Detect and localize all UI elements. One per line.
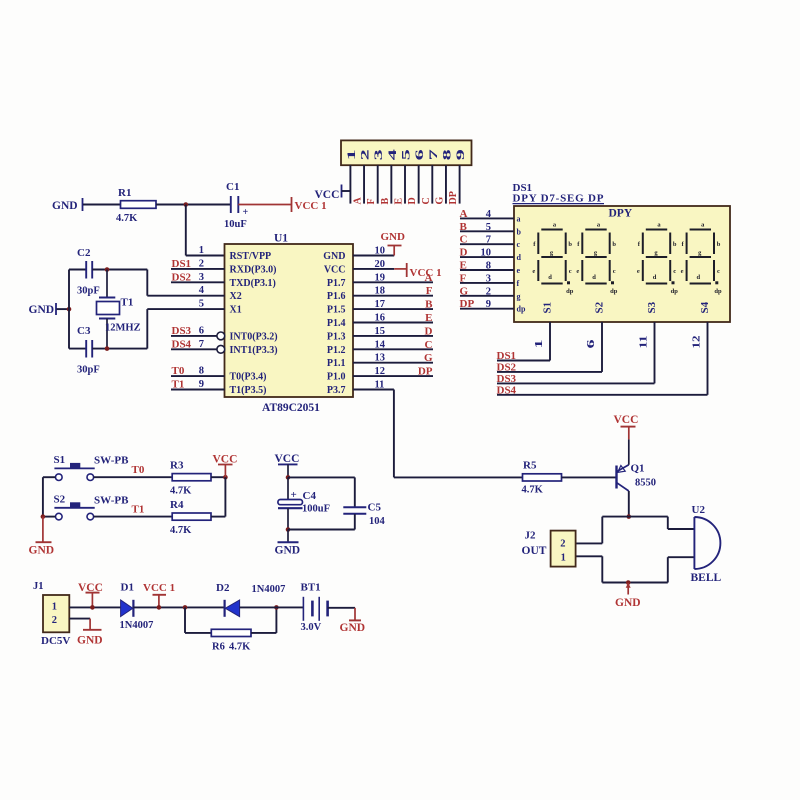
svg-text:D: D — [460, 247, 468, 259]
svg-text:P1.7: P1.7 — [327, 278, 346, 289]
connector J2 body — [551, 531, 576, 567]
node crystal top junction — [105, 267, 110, 272]
wire VCC to connector pin 1 — [342, 190, 351, 192]
svg-text:DP: DP — [418, 366, 433, 378]
node R3/VCC junction — [223, 475, 228, 480]
svg-text:T0: T0 — [172, 365, 185, 377]
wire S2 to R4 (net T1) — [94, 516, 173, 518]
svg-text:C5: C5 — [368, 502, 382, 514]
wire J1 pin1 to D1 — [69, 606, 120, 608]
wire top C2 segment — [69, 269, 86, 271]
svg-text:S2: S2 — [594, 301, 606, 313]
wire bypass rail left — [185, 632, 211, 634]
wire speaker loop left upper — [601, 517, 603, 544]
resistor R1 — [116, 187, 156, 224]
svg-text:RXD(P3.0): RXD(P3.0) — [230, 264, 277, 275]
power port VCC1 (top) — [292, 197, 327, 212]
wire bypass left down — [184, 607, 186, 633]
wire X1 rail segment — [146, 309, 148, 349]
svg-text:S1: S1 — [54, 454, 66, 466]
node speaker top junction — [627, 514, 632, 519]
capacitor C1 — [224, 181, 249, 230]
svg-text:DS3: DS3 — [172, 325, 192, 337]
svg-text:B: B — [425, 299, 433, 311]
svg-text:DS4: DS4 — [172, 338, 192, 350]
wire Q1 collector down — [628, 491, 630, 517]
svg-text:2: 2 — [360, 149, 372, 160]
svg-text:Q1: Q1 — [631, 463, 645, 475]
wire net DS3 to U1 pin 6 — [171, 335, 217, 337]
connector pin 9 lead wire — [459, 165, 461, 203]
wire speaker loop bottom — [602, 582, 668, 584]
svg-text:d: d — [517, 253, 522, 262]
svg-text:G: G — [434, 197, 445, 205]
wire display segment net D — [460, 256, 514, 258]
svg-text:DPY D7-SEG DP: DPY D7-SEG DP — [513, 193, 604, 205]
svg-text:INT0(P3.2): INT0(P3.2) — [230, 331, 278, 342]
wire speaker loop left lower — [601, 556, 603, 582]
svg-text:4.7K: 4.7K — [170, 486, 192, 497]
wire net T0 to U1 pin 8 — [171, 375, 225, 377]
connector pin 6 lead wire — [418, 165, 420, 203]
wire C3 to X1 node — [92, 348, 147, 350]
svg-text:X2: X2 — [230, 291, 242, 302]
svg-text:dp: dp — [671, 288, 679, 295]
svg-text:e: e — [532, 268, 535, 275]
diode D2 (1N4007, reversed) — [216, 582, 285, 617]
wire C5 branch down — [354, 477, 356, 507]
svg-text:9: 9 — [486, 299, 491, 310]
wire display segment net F — [460, 282, 514, 284]
svg-text:P3.7: P3.7 — [327, 385, 346, 396]
wire net DS2 horizontal — [497, 371, 602, 373]
svg-text:SW-PB: SW-PB — [94, 495, 129, 507]
svg-text:GND: GND — [323, 251, 345, 262]
wire U1 pin 10 to GND — [353, 255, 394, 257]
svg-text:6: 6 — [414, 149, 426, 160]
svg-text:c: c — [717, 268, 720, 275]
svg-text:E: E — [460, 260, 467, 272]
svg-text:a: a — [517, 214, 521, 223]
wire display segment net E — [460, 269, 514, 271]
svg-text:4.7K: 4.7K — [170, 525, 192, 536]
svg-text:D: D — [407, 197, 418, 204]
svg-text:T1: T1 — [121, 297, 134, 309]
svg-text:E: E — [425, 312, 432, 324]
power port VCC (J1) — [78, 582, 103, 607]
node C4 bottom junction — [286, 527, 291, 532]
wire D1 to D2 — [133, 606, 224, 608]
svg-text:VCC: VCC — [324, 264, 346, 275]
svg-text:30pF: 30pF — [77, 365, 100, 376]
svg-text:+: + — [243, 207, 249, 218]
svg-text:e: e — [576, 268, 579, 275]
node VCC/J1 junction — [90, 605, 95, 610]
wire bottom C3 segment — [69, 348, 86, 350]
svg-text:8: 8 — [486, 261, 491, 272]
svg-text:dp: dp — [714, 288, 722, 295]
svg-text:E: E — [394, 198, 405, 205]
svg-text:30pF: 30pF — [77, 286, 100, 297]
wire U1 pin 14 net C — [353, 348, 433, 350]
svg-text:D2: D2 — [216, 582, 230, 594]
svg-text:P1.0: P1.0 — [327, 372, 346, 383]
svg-text:DS2: DS2 — [497, 361, 517, 373]
svg-text:J2: J2 — [525, 530, 537, 542]
display DS1 part name — [513, 193, 605, 205]
svg-text:e: e — [517, 266, 521, 275]
svg-text:b: b — [568, 241, 572, 248]
svg-text:P1.4: P1.4 — [327, 318, 346, 329]
svg-text:GND: GND — [340, 622, 366, 634]
resistor R5 — [522, 460, 562, 496]
wire bypass right up — [275, 607, 277, 633]
svg-text:GND: GND — [381, 231, 406, 243]
seven-segment digit 2 — [576, 222, 617, 296]
svg-text:DPY: DPY — [609, 208, 633, 220]
power port VCC1 at U1 pin 20 — [394, 263, 441, 279]
svg-text:R5: R5 — [523, 460, 537, 472]
wire display segment net G — [460, 295, 514, 297]
wire R5 to Q1 base — [562, 476, 616, 478]
svg-text:10: 10 — [481, 248, 492, 259]
svg-text:G: G — [424, 352, 433, 364]
svg-text:C1: C1 — [226, 181, 239, 193]
wire U1 pin 15 net D — [353, 335, 433, 337]
wire crystal rail to U1 pin 4 — [147, 295, 224, 297]
wire junction down to U1 pin 1 — [185, 205, 187, 256]
diode D1 (1N4007) — [120, 582, 154, 632]
svg-text:P1.5: P1.5 — [327, 305, 346, 316]
node crystal bottom junction — [105, 346, 110, 351]
svg-text:OUT: OUT — [522, 545, 547, 557]
display DPY body — [514, 206, 730, 322]
node D2 bypass right junction — [274, 605, 279, 610]
svg-text:11: 11 — [639, 336, 650, 349]
svg-text:DS1: DS1 — [497, 350, 517, 362]
resistor R4 — [170, 499, 211, 536]
wire U1 pin 11 (P3.7) to R5 — [353, 389, 394, 391]
svg-text:5: 5 — [401, 149, 413, 160]
svg-text:C4: C4 — [303, 490, 317, 502]
svg-text:5: 5 — [486, 222, 491, 233]
svg-text:B: B — [460, 221, 468, 233]
svg-text:GND: GND — [615, 597, 641, 609]
wire C4/C5 bottom — [288, 529, 355, 531]
node speaker bottom junction — [626, 580, 631, 585]
svg-text:DS4: DS4 — [497, 384, 517, 396]
switch S1 (SW-PB) — [54, 454, 130, 481]
wire net DS3 horizontal — [497, 382, 655, 384]
buzzer U2 (bell) — [691, 504, 722, 584]
svg-text:c: c — [673, 268, 676, 275]
wire speaker loop top — [602, 516, 668, 518]
ground port GND (crystal) — [29, 303, 57, 316]
node junction R1/C1/RST — [184, 202, 189, 207]
svg-text:2: 2 — [52, 615, 57, 626]
svg-text:VCC 1: VCC 1 — [295, 200, 327, 212]
wire display segment net B — [460, 230, 514, 232]
svg-text:C: C — [425, 339, 433, 351]
battery BT1 — [301, 582, 328, 634]
wire loop to bell top — [668, 528, 695, 530]
wire Q1 emitter to VCC — [628, 439, 630, 464]
svg-text:C: C — [460, 234, 468, 246]
svg-text:9: 9 — [199, 379, 204, 390]
svg-text:C: C — [421, 197, 432, 204]
wire bypass rail right — [251, 632, 276, 634]
svg-text:7: 7 — [486, 235, 491, 246]
transistor Q1 (8550 PNP) — [617, 463, 657, 492]
connector pin 1 lead wire — [349, 165, 351, 203]
wire R1 to C1 — [156, 204, 231, 206]
svg-text:2: 2 — [560, 539, 565, 550]
svg-text:G: G — [460, 285, 469, 297]
wire J2 pin1 to loop — [576, 555, 603, 557]
svg-text:7: 7 — [199, 339, 204, 350]
wire crystal rail to U1 pin 5 — [147, 308, 224, 310]
wire U1 pin 16 net E — [353, 322, 433, 324]
svg-text:VCC: VCC — [315, 189, 340, 201]
svg-text:B: B — [380, 198, 391, 205]
wire GND to crystal rail — [57, 308, 70, 310]
svg-text:S4: S4 — [699, 301, 711, 313]
svg-text:dp: dp — [517, 305, 526, 314]
wire GND to R1 — [83, 204, 121, 206]
svg-text:4.7K: 4.7K — [116, 213, 138, 224]
svg-text:DS1: DS1 — [172, 258, 192, 270]
svg-text:DC5V: DC5V — [41, 635, 70, 647]
svg-text:RST/VPP: RST/VPP — [230, 251, 272, 262]
svg-text:INT1(P3.3): INT1(P3.3) — [230, 345, 278, 356]
svg-text:U2: U2 — [692, 504, 706, 516]
wire net DS2 to U1 pin 3 — [171, 281, 225, 283]
svg-text:A: A — [353, 197, 364, 205]
wire U1 pin 17 net B — [353, 308, 433, 310]
svg-text:DP: DP — [460, 298, 475, 310]
svg-text:BELL: BELL — [691, 572, 722, 584]
power port VCC1 (bottom) — [143, 582, 175, 607]
svg-text:1N4007: 1N4007 — [252, 584, 286, 595]
svg-text:R1: R1 — [118, 187, 131, 199]
svg-text:VCC: VCC — [275, 453, 300, 465]
svg-text:S1: S1 — [542, 302, 554, 314]
svg-text:VCC: VCC — [614, 414, 639, 426]
wire R3 to VCC rail — [211, 476, 225, 478]
wire net DS4 horizontal — [497, 394, 708, 396]
svg-text:d: d — [592, 274, 596, 281]
svg-text:8: 8 — [199, 366, 204, 377]
connector pin 2 lead wire — [363, 165, 365, 203]
svg-text:GND: GND — [52, 200, 78, 212]
capacitor C2 — [77, 247, 100, 297]
wire display S2 down — [601, 322, 603, 372]
ground GND (battery) — [340, 608, 366, 634]
power port VCC (Q1) — [614, 414, 639, 439]
svg-text:GND: GND — [29, 545, 55, 557]
svg-text:d: d — [696, 274, 700, 281]
svg-text:e: e — [681, 268, 684, 275]
svg-text:dp: dp — [610, 288, 618, 295]
svg-text:2: 2 — [199, 258, 204, 269]
wire BT1 to GND — [328, 607, 355, 609]
wire switches left rail — [42, 477, 44, 516]
capacitor C5 — [343, 502, 385, 528]
svg-text:3: 3 — [486, 273, 491, 284]
wire C1 to VCC1 (red) — [238, 204, 291, 206]
svg-text:c: c — [613, 268, 616, 275]
svg-text:F: F — [426, 285, 433, 297]
svg-text:BT1: BT1 — [301, 582, 321, 594]
svg-text:8550: 8550 — [635, 478, 656, 489]
svg-text:GND: GND — [29, 304, 55, 316]
node switches GND junction — [41, 514, 46, 519]
power port VCC (C4) — [275, 453, 300, 477]
wire net DS4 to U1 pin 7 — [171, 348, 217, 350]
svg-text:SW-PB: SW-PB — [94, 455, 129, 467]
svg-text:D: D — [425, 325, 433, 337]
connector pin 7 lead wire — [431, 165, 433, 203]
svg-text:3: 3 — [199, 272, 204, 283]
wire display S3 down — [654, 322, 656, 383]
svg-text:4.7K: 4.7K — [229, 642, 251, 653]
svg-text:GND: GND — [77, 635, 103, 647]
wire S1 to R3 (net T0) — [94, 476, 173, 478]
svg-text:S3: S3 — [646, 301, 658, 313]
wire crystal left rail — [68, 270, 70, 349]
node VCC1 junction — [157, 605, 162, 610]
svg-text:6: 6 — [586, 340, 597, 349]
svg-text:T0: T0 — [132, 464, 145, 476]
wire net DS1 to U1 pin 2 — [171, 268, 225, 270]
svg-text:TXD(P3.1): TXD(P3.1) — [230, 278, 276, 289]
wire U1 pin 18 net F — [353, 295, 433, 297]
resistor R6 (bypass) — [211, 629, 251, 652]
connector pin 8 lead wire — [445, 165, 447, 203]
wire loop to bell bottom — [668, 556, 695, 558]
svg-text:DS2: DS2 — [172, 271, 192, 283]
wire U1 pin 12 net DP — [353, 375, 433, 377]
wire C4 top to C5 — [288, 476, 355, 478]
svg-text:DP: DP — [448, 191, 459, 204]
svg-text:AT89C2051: AT89C2051 — [262, 402, 320, 414]
svg-text:P1.6: P1.6 — [327, 291, 346, 302]
svg-text:d: d — [548, 274, 552, 281]
svg-text:8: 8 — [441, 149, 453, 160]
svg-text:1: 1 — [534, 340, 545, 349]
wire speaker loop right upper — [667, 517, 669, 529]
U1 pin 7 inversion bubble — [217, 345, 225, 353]
svg-text:F: F — [460, 272, 467, 284]
svg-text:c: c — [569, 268, 572, 275]
svg-text:1: 1 — [52, 602, 57, 613]
svg-text:10uF: 10uF — [224, 219, 247, 230]
svg-text:12MHZ: 12MHZ — [105, 323, 141, 334]
svg-text:12: 12 — [692, 336, 703, 349]
svg-text:4.7K: 4.7K — [522, 485, 544, 496]
svg-text:7: 7 — [428, 149, 440, 160]
svg-text:T1(P3.5): T1(P3.5) — [230, 385, 267, 396]
svg-text:100uF: 100uF — [302, 504, 330, 515]
connector header (9-pin) body — [341, 140, 472, 165]
wire R4 to VCC rail — [211, 516, 225, 518]
svg-text:J1: J1 — [33, 581, 44, 592]
svg-text:A: A — [425, 272, 433, 284]
svg-text:3.0V: 3.0V — [301, 622, 322, 633]
ground port GND (top-left net label) — [52, 198, 83, 212]
capacitor C3 — [77, 325, 100, 376]
ground symbol at U1 pin 10 — [381, 231, 406, 256]
svg-text:C3: C3 — [77, 325, 91, 337]
svg-text:T0(P3.4): T0(P3.4) — [230, 372, 267, 383]
svg-text:1: 1 — [199, 245, 204, 256]
svg-text:b: b — [717, 241, 721, 248]
node crystal-rail/GND junction — [67, 307, 72, 312]
svg-text:b: b — [517, 227, 522, 236]
wire VCC rail down to R4 — [224, 477, 226, 516]
svg-text:f: f — [517, 279, 520, 288]
svg-text:1: 1 — [561, 553, 566, 564]
svg-text:D1: D1 — [121, 582, 134, 594]
wire display segment net C — [460, 243, 514, 245]
ground GND (C4) — [275, 530, 301, 557]
svg-text:e: e — [637, 268, 640, 275]
connector J1 body — [43, 595, 69, 632]
svg-text:DS3: DS3 — [497, 373, 517, 385]
svg-text:c: c — [517, 240, 521, 249]
svg-text:4: 4 — [387, 149, 399, 160]
power port VCC (connector pin 1) — [315, 185, 342, 202]
svg-text:g: g — [517, 292, 521, 301]
capacitor C4 (electrolytic) — [278, 477, 330, 529]
svg-text:R6: R6 — [212, 642, 225, 653]
node VCC/C4 junction — [286, 475, 291, 480]
crystal T1 — [97, 270, 141, 349]
wire display segment net DP — [460, 308, 514, 310]
svg-text:R4: R4 — [170, 499, 184, 511]
svg-text:1N4007: 1N4007 — [120, 620, 154, 631]
svg-text:X1: X1 — [230, 305, 242, 316]
svg-text:1: 1 — [346, 149, 358, 160]
U1 pin 6 inversion bubble — [217, 332, 225, 340]
svg-text:T1: T1 — [132, 504, 145, 516]
wire display segment net A — [460, 217, 514, 219]
svg-text:P1.2: P1.2 — [327, 345, 346, 356]
svg-text:dp: dp — [566, 288, 574, 295]
svg-text:4: 4 — [199, 285, 205, 296]
svg-text:9: 9 — [455, 149, 467, 160]
svg-text:3: 3 — [373, 149, 385, 160]
wire net T1 to U1 pin 9 — [171, 389, 225, 391]
wire net DS1 horizontal — [497, 360, 550, 362]
wire P3.7 to R5 — [394, 476, 523, 478]
wire display S1 down — [549, 322, 551, 361]
svg-text:VCC 1: VCC 1 — [143, 582, 175, 594]
connector pin 4 lead wire — [390, 165, 392, 203]
svg-text:+: + — [291, 489, 297, 501]
svg-text:104: 104 — [369, 516, 386, 527]
ground GND (switches) — [29, 517, 55, 557]
wire X2 rail segment — [146, 270, 148, 296]
svg-text:P1.3: P1.3 — [327, 331, 346, 342]
wire display S4 down — [707, 322, 709, 395]
svg-text:5: 5 — [199, 299, 204, 310]
svg-text:U1: U1 — [274, 233, 288, 245]
svg-text:A: A — [460, 208, 468, 220]
svg-text:4: 4 — [486, 209, 492, 220]
seven-segment digit 3 — [637, 222, 678, 296]
wire D2 to BT1 — [240, 606, 304, 608]
